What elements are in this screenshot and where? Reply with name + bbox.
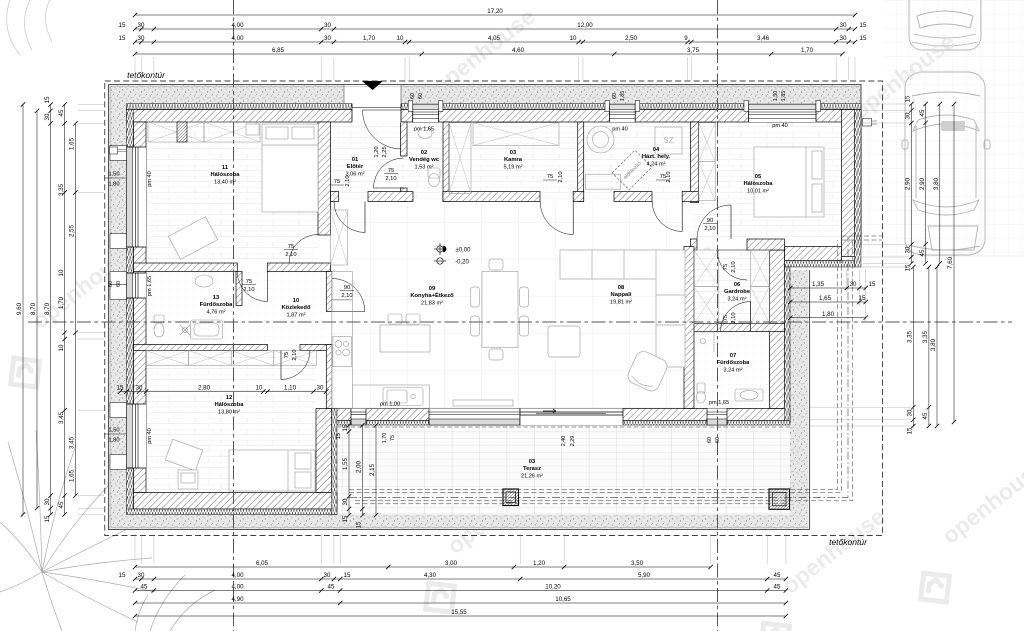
exterior wall right room05 [842, 110, 855, 257]
svg-text:30: 30 [44, 498, 51, 505]
door entry to living [334, 202, 365, 233]
svg-text:4,24 m²: 4,24 m² [647, 162, 666, 168]
bath13 toilet [154, 315, 164, 323]
svg-text:75: 75 [288, 244, 294, 250]
svg-text:90: 90 [707, 218, 713, 224]
left dimension column 1 (9,60) [22, 105, 24, 515]
chimney box room 11 [177, 122, 187, 142]
svg-text:2,10: 2,10 [731, 312, 737, 323]
svg-text:06: 06 [734, 282, 741, 288]
svg-text:4,30: 4,30 [424, 572, 437, 579]
wall room05 south west jamb [691, 239, 698, 250]
sofa L nappali [560, 250, 685, 367]
exterior wall left [134, 122, 147, 493]
svg-text:3,24 m²: 3,24 m² [724, 368, 743, 374]
svg-text:Házt. hely.: Házt. hely. [642, 154, 671, 160]
svg-text:3,80: 3,80 [933, 177, 940, 190]
svg-text:3,46: 3,46 [757, 35, 770, 42]
svg-text:30: 30 [850, 281, 857, 288]
top dimension row 3 [135, 41, 855, 43]
top dimension row 2 [135, 28, 855, 30]
svg-text:Konyha+Étkező: Konyha+Étkező [410, 291, 454, 299]
svg-text:30: 30 [907, 409, 914, 416]
wall room11/entry upper [318, 122, 331, 235]
svg-text:12,00: 12,00 [577, 22, 593, 29]
svg-text:3,50: 3,50 [631, 560, 644, 567]
svg-text:15: 15 [356, 521, 363, 528]
svg-text:8,70: 8,70 [30, 302, 37, 315]
left dimension column 4 [64, 105, 66, 515]
kitchen counter west [332, 300, 353, 409]
gravel stipple band left [109, 85, 127, 530]
svg-text:02: 02 [421, 150, 427, 156]
insulation south east wing [785, 261, 855, 268]
vent pipe right outside [861, 121, 877, 124]
bed room 05 [754, 147, 824, 217]
svg-text:75: 75 [390, 435, 396, 441]
svg-text:60: 60 [108, 281, 114, 287]
svg-text:10: 10 [256, 385, 263, 392]
wall room12 east lower [316, 409, 332, 493]
kitchen counter south + sink [352, 385, 429, 409]
svg-text:01: 01 [352, 157, 359, 163]
armchair rotated [625, 349, 669, 394]
floor entry + wc + kamra + hazt [331, 122, 693, 200]
svg-text:2,15: 2,15 [369, 463, 376, 476]
svg-text:15: 15 [905, 264, 912, 271]
svg-text:45: 45 [919, 249, 926, 256]
level marker -0.20 [434, 258, 446, 264]
svg-text:7,60: 7,60 [947, 256, 954, 269]
svg-text:2,80: 2,80 [198, 385, 211, 392]
wall gardrobe/bath07 [693, 324, 785, 332]
svg-text:04: 04 [653, 147, 660, 153]
svg-text:Hálószoba: Hálószoba [744, 181, 774, 187]
svg-text:pm 40: pm 40 [147, 171, 153, 187]
svg-text:90: 90 [344, 285, 350, 291]
svg-text:1,20: 1,20 [533, 560, 546, 567]
svg-text:1,70: 1,70 [801, 47, 814, 54]
bottom dimension row 1 [135, 566, 711, 568]
svg-text:60: 60 [612, 93, 618, 99]
door gardrobe north [717, 250, 747, 280]
hazt counter [585, 174, 620, 189]
svg-text:17,20: 17,20 [487, 8, 503, 15]
section line vertical A [233, 0, 235, 631]
floor gardrobe 06 [693, 250, 785, 324]
svg-text:30: 30 [905, 112, 912, 119]
openhouse watermarks [93, 93, 273, 253]
svg-text:15,55: 15,55 [451, 609, 467, 616]
svg-text:4,00: 4,00 [231, 35, 244, 42]
svg-text:75: 75 [334, 179, 340, 185]
wall entry/wc upper [401, 122, 408, 156]
svg-text:30: 30 [44, 113, 51, 120]
svg-text:2,90: 2,90 [905, 177, 912, 190]
svg-text:75: 75 [723, 315, 729, 321]
gravel stipple band right of terrace [790, 270, 808, 520]
exterior wall south living [331, 409, 791, 421]
door kamra [540, 202, 573, 235]
svg-text:30: 30 [138, 22, 145, 29]
svg-text:3,35: 3,35 [58, 183, 65, 196]
right dimension top group [910, 104, 912, 263]
svg-text:1,85: 1,85 [781, 91, 787, 102]
window W2 above kamra/hazt [610, 104, 636, 123]
door hazt [652, 202, 682, 232]
desk room 11 rotated [168, 217, 217, 260]
top dimension row 4 [135, 53, 842, 55]
svg-text:3,00: 3,00 [445, 560, 458, 567]
svg-text:1,35: 1,35 [812, 281, 825, 288]
svg-text:10: 10 [293, 298, 299, 304]
wall room10/room12 east part [300, 345, 332, 351]
svg-text:-0,20: -0,20 [455, 260, 469, 266]
gravel stipple strip right wall [855, 90, 861, 248]
svg-text:2,25: 2,25 [382, 146, 388, 157]
svg-text:45: 45 [328, 584, 335, 591]
window W3 room05 top [749, 104, 817, 123]
svg-text:1,80: 1,80 [108, 438, 119, 444]
svg-text:Hálószoba: Hálószoba [215, 402, 245, 408]
window W1 above wc [413, 104, 439, 123]
bottom dimension row 4 [135, 602, 786, 604]
window W9 kitchen small [351, 409, 366, 426]
window W7 living big [429, 409, 520, 426]
svg-text:10,20: 10,20 [545, 584, 561, 591]
tree branches bottom left [0, 430, 215, 631]
svg-text:30: 30 [317, 385, 324, 392]
svg-text:Kamra: Kamra [504, 157, 523, 163]
svg-text:3,45: 3,45 [58, 411, 65, 424]
svg-text:45: 45 [774, 584, 781, 591]
svg-text:75: 75 [246, 279, 252, 285]
chair room 12 rotated [165, 439, 203, 471]
svg-text:Vendég wc: Vendég wc [409, 157, 440, 163]
svg-text:75: 75 [547, 174, 553, 180]
svg-text:45: 45 [922, 412, 929, 419]
gravel stipple band top [109, 85, 862, 104]
svg-text:1,87 m²: 1,87 m² [287, 313, 306, 319]
wardrobe room 11 top [148, 122, 204, 142]
window W6 room12 left [127, 404, 147, 468]
wall room05 south east part [747, 239, 785, 250]
left dimension column 2 (8,70) [36, 111, 38, 508]
svg-text:15: 15 [905, 95, 912, 102]
svg-text:03: 03 [529, 459, 536, 465]
kamra shelving [449, 123, 471, 194]
svg-text:pm 1,65: pm 1,65 [709, 400, 729, 406]
svg-text:3,24 m²: 3,24 m² [728, 297, 747, 303]
wardrobe entry [331, 210, 348, 265]
svg-text:75: 75 [388, 168, 394, 174]
svg-text:1,50: 1,50 [108, 428, 119, 434]
svg-text:pm 40: pm 40 [612, 127, 628, 133]
coffee table [548, 326, 580, 357]
wall room11/room13 west [134, 263, 238, 272]
insulation south wall [331, 421, 791, 426]
wall kamra/hazt [578, 122, 584, 202]
hazt prep table dashed rotated [612, 150, 652, 190]
svg-text:4,76 m²: 4,76 m² [207, 310, 226, 316]
svg-text:15: 15 [342, 424, 349, 431]
svg-text:10: 10 [58, 269, 65, 276]
svg-text:Hálószoba: Hálószoba [211, 172, 241, 178]
svg-text:1,85: 1,85 [620, 91, 626, 102]
svg-text:Fürdőszoba: Fürdőszoba [200, 302, 234, 308]
svg-text:2,10: 2,10 [345, 175, 351, 186]
svg-text:60: 60 [418, 93, 424, 99]
gravel stipple band bottom [109, 515, 809, 530]
svg-text:09: 09 [429, 286, 436, 292]
window W4 room11 left [127, 147, 147, 247]
terrace left dims [348, 425, 350, 515]
svg-text:2,10: 2,10 [292, 349, 298, 360]
svg-text:11: 11 [222, 165, 229, 171]
dryer SZ box [655, 127, 682, 154]
outer paving edge line [109, 85, 862, 530]
floor room 11 [146, 122, 318, 264]
svg-text:1,20: 1,20 [374, 146, 380, 157]
entrance walkway gap [344, 85, 401, 104]
dining table [482, 272, 518, 348]
dimension extension hairlines right [863, 103, 909, 105]
svg-text:9,60: 9,60 [16, 302, 23, 315]
insulation left wall [127, 110, 134, 515]
insulation top wall [127, 104, 862, 110]
bottom dimension row 5 [135, 615, 786, 617]
svg-text:4,90: 4,90 [231, 596, 244, 603]
svg-text:pm 40: pm 40 [147, 428, 153, 444]
wall room11/room13 east [267, 263, 330, 272]
bottom dimension row 3 [135, 590, 786, 592]
svg-text:15: 15 [44, 96, 51, 103]
wall entry/wc lower [401, 188, 408, 202]
svg-text:30: 30 [138, 35, 145, 42]
wc sink [418, 128, 432, 139]
svg-text:2,00: 2,00 [356, 460, 363, 473]
svg-text:08: 08 [618, 285, 625, 291]
svg-text:9: 9 [684, 35, 688, 42]
right dimension bottom group [912, 267, 914, 426]
bottom dimension row 2 [135, 578, 786, 580]
floor living + kitchen [331, 202, 685, 410]
door room10 to living [332, 279, 365, 312]
svg-text:tetőkontúr: tetőkontúr [127, 70, 166, 80]
svg-text:3,35: 3,35 [922, 330, 929, 343]
svg-text:30: 30 [138, 572, 145, 579]
parking paving right margin [883, 0, 1024, 256]
svg-text:45: 45 [58, 501, 65, 508]
svg-text:07: 07 [730, 353, 736, 359]
car top view 2 (right margin) [902, 72, 990, 255]
floor room 12 [146, 351, 316, 493]
vent pipe left outside [109, 150, 127, 152]
top dimension row 1 [135, 14, 855, 16]
level marker 0.00 [434, 243, 446, 255]
svg-text:2,55: 2,55 [69, 224, 76, 237]
entrance opening cut in wall [352, 103, 401, 123]
svg-text:05: 05 [755, 174, 762, 180]
east wing dim extension hairlines [846, 270, 848, 292]
exterior wall east gardrobe [770, 250, 785, 409]
svg-text:5,90: 5,90 [638, 572, 651, 579]
svg-text:60: 60 [116, 281, 122, 287]
svg-text:±0,00: ±0,00 [456, 248, 472, 254]
wall south of hazt east part [682, 192, 698, 202]
svg-text:2,10: 2,10 [385, 176, 396, 182]
svg-text:Fürdőszoba: Fürdőszoba [717, 360, 751, 366]
svg-text:1,80: 1,80 [822, 311, 835, 318]
svg-text:1,65: 1,65 [69, 137, 76, 150]
svg-text:pm 1,00: pm 1,00 [380, 402, 400, 408]
svg-text:5,19 m²: 5,19 m² [504, 165, 523, 171]
svg-text:15: 15 [860, 35, 867, 42]
svg-text:1,50: 1,50 [773, 91, 779, 102]
wall living/gardrobe block [684, 247, 694, 409]
svg-text:Terasz: Terasz [523, 466, 541, 472]
svg-text:1,70: 1,70 [382, 433, 388, 444]
svg-text:15: 15 [336, 433, 342, 439]
svg-text:4,60: 4,60 [512, 47, 525, 54]
wall south of entry west jamb [331, 192, 339, 202]
door room05 [697, 205, 731, 239]
svg-text:2,10: 2,10 [285, 252, 296, 258]
wardrobe niche room05 [699, 123, 716, 162]
svg-text:60: 60 [707, 437, 713, 443]
svg-text:2,10: 2,10 [704, 226, 715, 232]
svg-text:21,83 m²: 21,83 m² [421, 301, 443, 307]
bath13 tub [191, 320, 223, 339]
svg-text:3,75: 3,75 [687, 47, 700, 54]
svg-text:3,45: 3,45 [69, 436, 76, 449]
insulation east gardrobe wall [785, 267, 791, 421]
svg-text:15: 15 [117, 385, 124, 392]
svg-text:30: 30 [136, 385, 143, 392]
room12 inner dim row [120, 391, 326, 393]
svg-text:10,65: 10,65 [555, 596, 571, 603]
sliding terrace door [520, 409, 623, 426]
svg-text:30: 30 [905, 246, 912, 253]
svg-text:45: 45 [774, 572, 781, 579]
dimension extension hairlines left [78, 104, 104, 106]
svg-text:2,50: 2,50 [625, 35, 638, 42]
svg-text:60: 60 [715, 437, 721, 443]
window W10 bath07 small [707, 409, 727, 426]
svg-text:21,26 m²: 21,26 m² [521, 474, 543, 480]
svg-text:75: 75 [723, 264, 729, 270]
door room11 (in wall) [289, 235, 318, 264]
window W5 room13 left [127, 273, 147, 298]
insulation right wall [855, 110, 862, 268]
floor bath 07 [693, 332, 785, 409]
section line horizontal [28, 321, 1012, 323]
wall south of kamra west part [443, 192, 540, 202]
svg-text:4,05: 4,05 [488, 35, 501, 42]
svg-text:SZ: SZ [663, 136, 673, 145]
svg-text:13: 13 [213, 295, 220, 301]
wall kamra/hazt south joint [573, 192, 584, 202]
svg-text:pm 40: pm 40 [772, 123, 788, 129]
entrance door arc [363, 110, 402, 149]
svg-text:30: 30 [840, 35, 847, 42]
washing machine hazt [587, 126, 614, 153]
exterior wall south east wing [785, 247, 842, 261]
svg-text:15: 15 [344, 572, 351, 579]
wall room13/room12 [134, 345, 268, 351]
svg-text:30: 30 [840, 22, 847, 29]
exterior wall bottom west wing [134, 493, 338, 510]
tree top left [7, 0, 52, 55]
svg-text:15: 15 [869, 281, 876, 288]
wall hazt/room05 niche [691, 122, 699, 203]
kitchen island [380, 325, 430, 352]
tv board [453, 400, 513, 406]
svg-text:75: 75 [284, 352, 290, 358]
svg-text:13,80 m²: 13,80 m² [218, 410, 240, 416]
floor room 05 [693, 122, 842, 239]
desk room 12 [178, 470, 198, 489]
bath07 toilet [697, 383, 705, 393]
svg-text:15: 15 [907, 427, 914, 434]
bath07 sink [735, 389, 763, 401]
svg-text:2,10: 2,10 [731, 261, 737, 272]
svg-text:15: 15 [859, 295, 866, 302]
wall south of hazt west part [614, 192, 652, 202]
svg-text:3,80: 3,80 [930, 338, 937, 351]
car top view 1 (partial, top right) [909, 0, 981, 50]
svg-text:pm 1,65: pm 1,65 [414, 127, 434, 133]
svg-text:45: 45 [919, 109, 926, 116]
wardrobe band room 12 north [146, 351, 189, 366]
insulation west wing east face [332, 409, 338, 515]
svg-text:30: 30 [342, 498, 349, 505]
terrace floor [337, 425, 790, 515]
terrace door arrow [543, 409, 556, 413]
dimension extension hairlines top [134, 57, 136, 80]
left dimension column 3 [50, 105, 52, 515]
svg-text:15: 15 [119, 35, 126, 42]
svg-text:10,01 m²: 10,01 m² [747, 189, 769, 195]
insulation bottom wall [127, 509, 338, 515]
gardrobe wardrobes [694, 250, 719, 287]
svg-text:pm 1,65: pm 1,65 [147, 276, 153, 296]
svg-text:4,00: 4,00 [231, 584, 244, 591]
wall south of wc [368, 192, 413, 202]
svg-text:Közlekedő: Közlekedő [282, 305, 311, 311]
svg-text:45: 45 [58, 109, 65, 116]
svg-text:2,90: 2,90 [919, 177, 926, 190]
terrace column SW [503, 489, 519, 506]
svg-text:2,40: 2,40 [561, 436, 567, 447]
svg-text:30: 30 [324, 22, 331, 29]
svg-text:15: 15 [342, 515, 349, 522]
floor room 13 bath [146, 272, 267, 345]
svg-text:Gardrobe: Gardrobe [724, 289, 751, 295]
terrace column SE [769, 489, 790, 509]
svg-text:15: 15 [119, 572, 126, 579]
east wing eave dashes [842, 236, 883, 240]
svg-text:1,80: 1,80 [108, 182, 119, 188]
bath13 sink [195, 275, 213, 287]
svg-text:03: 03 [510, 150, 517, 156]
svg-text:8,70: 8,70 [44, 302, 51, 315]
svg-text:1,70: 1,70 [363, 35, 376, 42]
svg-text:60: 60 [410, 93, 416, 99]
svg-text:30: 30 [324, 572, 331, 579]
svg-text:2,29: 2,29 [570, 436, 576, 447]
fridge [332, 272, 353, 300]
